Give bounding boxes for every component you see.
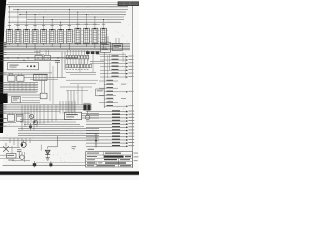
node: connector pin row 9 <box>86 136 134 138</box>
wire: centre drop bundle <box>22 105 40 130</box>
capacitor bank C2-C4 <box>86 51 99 54</box>
IC U10 (DIP package) <box>82 24 90 44</box>
wire: left bus verticals <box>10 83 34 92</box>
wire: net under U13 <box>24 78 66 80</box>
node: signal row B7 <box>99 101 118 102</box>
node: tick through border 2 <box>49 161 52 167</box>
IC U17 <box>8 112 15 121</box>
node: signal row A7 <box>100 76 134 78</box>
transistor Q5 <box>41 145 50 158</box>
diode CR2 <box>8 152 24 162</box>
resistor R18 <box>40 80 47 99</box>
relay K2 <box>83 103 90 110</box>
node: connector pin row 3 <box>86 117 134 119</box>
node: signal row B1 <box>99 80 118 81</box>
IC U8 (DIP package) <box>65 25 73 43</box>
wire: drop to Q5 <box>48 136 58 149</box>
wire: top bus line 1 <box>8 6 128 8</box>
IC U16 <box>12 96 20 102</box>
IC U4 (DIP package) <box>31 25 39 43</box>
IC U9 (DIP package) <box>74 24 82 44</box>
wire: left bus bundle <box>0 83 38 92</box>
IC U11 (DIP package) <box>91 24 99 44</box>
wire: middle distribution line 2 <box>0 106 92 108</box>
wire: verticals above U19 <box>68 90 74 112</box>
wire: verticals to resistor row <box>67 50 87 56</box>
IC U22 <box>96 89 105 96</box>
wire: lower bus line 2 <box>18 130 99 132</box>
resistor network RN1 <box>35 50 42 60</box>
node: connector bracket A <box>108 55 126 78</box>
wire: middle distribution line 1 <box>0 104 92 106</box>
node: signal row A3 <box>100 62 134 64</box>
wire: lower bus line 1 <box>18 127 99 129</box>
wire: bus-to-IC vertical drops <box>9 6 104 29</box>
node: title block rules <box>86 152 133 167</box>
transistor Q2 <box>21 140 26 147</box>
node: connector pin row 5 <box>86 123 134 125</box>
wire: verticals between rows <box>67 59 87 64</box>
node: revision table <box>118 1 139 6</box>
wire: nets by U16 <box>8 95 40 103</box>
wire: nets right of resistor rows <box>66 62 104 75</box>
wire: top bus line 8 <box>14 24 100 26</box>
wire: right-centre drop bundle <box>60 101 75 114</box>
wire: top bus line 6 <box>27 19 124 21</box>
IC U7 (DIP package) <box>57 25 65 43</box>
node: connector pin row 6 <box>86 126 134 128</box>
transistor Q4 <box>33 120 37 124</box>
IC U13 <box>34 74 48 80</box>
wire: right-centre net verticals <box>80 54 93 72</box>
wire: sheet border right <box>131 4 133 168</box>
wire: top bus line 7 <box>8 21 121 23</box>
node: connector pin row 12 <box>86 145 134 147</box>
wire: lower bus line 3 <box>18 132 99 134</box>
wire: faint top line <box>8 1 118 3</box>
node: labels under resistors <box>66 68 88 71</box>
wire: secondary net <box>2 60 60 61</box>
node: margin text right of frame <box>134 153 139 161</box>
transistor Q3 <box>29 114 33 118</box>
wire: sheet border bottom <box>3 162 134 165</box>
IC U20 <box>100 42 110 52</box>
IC U12 (DIP package) <box>99 24 107 44</box>
IC U5 (DIP package) <box>40 25 48 43</box>
IC U21 <box>112 44 122 51</box>
wire: line 4 <box>0 110 60 112</box>
wire: lines under relay <box>0 73 52 75</box>
wire: mid bus line 2 <box>4 44 130 46</box>
wire: bottom-left nets <box>0 148 30 161</box>
wire: net line y51 <box>34 50 100 52</box>
wire: main horizontal net <box>2 57 78 58</box>
IC U6 (DIP package) <box>48 25 56 43</box>
wire: top bus line 2 <box>13 8 128 10</box>
node: connector pin row 10 <box>86 139 134 141</box>
node: signal row A2 <box>100 59 134 61</box>
wire: top bus line 5 <box>8 16 124 18</box>
node: marker near title block <box>95 133 97 147</box>
node: signal row A1 <box>100 55 134 57</box>
node: signal row B6 <box>104 98 126 99</box>
IC U1 (DIP package) <box>5 25 13 43</box>
node: signal row B2 <box>104 83 126 84</box>
wire: lower bus line 5 <box>0 137 99 139</box>
node: signal row A4 <box>100 66 134 68</box>
node: connector pin row 7 <box>86 129 134 131</box>
node: note text <box>72 146 77 149</box>
resistor row R9-R17 <box>66 64 91 68</box>
wire: centre verticals <box>58 52 66 78</box>
IC U15 <box>17 73 24 81</box>
node: title block frame <box>86 152 133 167</box>
transistor Q1 <box>3 143 9 152</box>
wire: mid bus line 4 <box>4 47 130 49</box>
wire: top bus line 4 <box>19 14 126 15</box>
IC U19 <box>65 112 82 119</box>
node: title text lines <box>87 153 131 167</box>
wire: middle distribution line 3 <box>0 108 92 110</box>
wire: right aux verticals <box>110 52 124 70</box>
node: tick through border <box>33 161 36 167</box>
wire: left strip stubs <box>0 43 7 127</box>
wire: lower bus line 6 <box>0 139 99 141</box>
IC U3 (DIP package) <box>23 25 31 43</box>
IC U18 <box>16 114 23 121</box>
wire: centre column verticals <box>50 62 53 104</box>
wire: U19 outputs <box>82 114 100 118</box>
node: signal row B5 <box>99 94 116 95</box>
wire: horizontals y119-126 <box>20 120 84 127</box>
node: connector pin row 4 <box>86 120 134 122</box>
capacitor C6 <box>17 150 21 158</box>
wire: feeds to U20/U21 <box>105 36 119 44</box>
wire: right vertical feeder <box>103 52 105 108</box>
wire: sheet border top <box>6 3 132 5</box>
relay K1 <box>8 63 39 70</box>
node: signal row B4 <box>104 91 133 93</box>
node: connector pin row 11 <box>86 142 134 144</box>
wire: centre drop bundle 2 <box>44 105 56 124</box>
wire: net above connector A <box>96 53 126 55</box>
node: signal row B3 <box>99 87 118 88</box>
resistor row R1-R8 <box>66 55 88 59</box>
wire: left feeder lines <box>0 53 44 55</box>
node: connector pin row 8 <box>86 132 134 134</box>
diode CR1 <box>29 123 32 130</box>
node: signal row A5 <box>100 69 134 71</box>
resistor network RN2 <box>44 50 50 60</box>
wire: lower bus line 4 <box>18 135 99 137</box>
node: drawing number above title <box>88 149 94 150</box>
wire: nets at left lower <box>0 113 30 126</box>
wire: bottom feeder verticals <box>10 138 30 147</box>
wire: mid bus line 1 <box>4 42 130 44</box>
node: connector pin row 1 <box>86 110 134 112</box>
node: signal row A6 <box>100 72 134 74</box>
wire: net y77-90 right-centre <box>60 80 98 90</box>
wire: verticals to K2 <box>78 84 82 105</box>
transistor Q6 <box>85 110 90 119</box>
IC U14 <box>8 73 15 81</box>
ground <box>46 158 50 160</box>
capacitor C1 <box>55 61 60 67</box>
IC U2 (DIP package) <box>14 25 22 43</box>
node: signal row B8 <box>104 105 133 107</box>
node: connector pin row 2 <box>86 114 134 116</box>
resistor R20 <box>7 146 17 158</box>
wire: mid bus line 5 <box>4 49 130 51</box>
wire: IC-to-bus drops <box>9 43 103 50</box>
wire: extra left nets <box>0 93 40 101</box>
wire: mid bus line 3 <box>4 46 130 48</box>
wire: top bus line 3 <box>8 11 126 13</box>
